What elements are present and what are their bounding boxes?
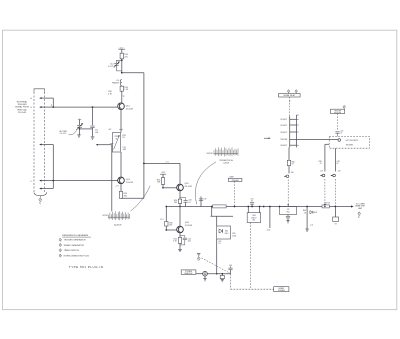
plug pin D arrow — [39, 180, 54, 182]
svg-text:5K: 5K — [115, 138, 117, 140]
dashed link from ground ref — [202, 258, 231, 274]
svg-text:C25: C25 — [340, 130, 343, 132]
svg-text:50V/CM: 50V/CM — [206, 153, 213, 155]
svg-text:TRIGGER GENERATOR: TRIGGER GENERATOR — [64, 239, 87, 242]
svg-text:4.5-25: 4.5-25 — [108, 66, 113, 68]
legend item 3 — [59, 249, 79, 252]
svg-text:+7.5: +7.5 — [165, 161, 168, 163]
plug pin E arrow — [39, 187, 53, 189]
label R10 — [108, 91, 113, 95]
svg-text:93: 93 — [335, 223, 337, 225]
capacitor C34 — [180, 198, 191, 207]
svg-text:-0.35: -0.35 — [266, 229, 270, 231]
label Q44 — [185, 222, 192, 227]
svg-text:SEL: SEL — [252, 220, 255, 222]
arrow to sweep generator — [351, 205, 354, 207]
delay line label box — [279, 94, 301, 98]
termination box T47 — [279, 206, 297, 223]
wire — [121, 59, 123, 73]
dashed wire sweep horizontal — [231, 288, 274, 290]
capacitor C47 above rail — [250, 199, 254, 208]
stub below rail — [333, 207, 339, 226]
svg-text:C4 3-12: C4 3-12 — [60, 133, 66, 135]
annotation line x112 — [96, 144, 114, 212]
supply +125V — [160, 172, 166, 177]
svg-text:93: 93 — [292, 164, 294, 166]
wire pin C down — [52, 145, 54, 189]
legend item 1 — [59, 238, 86, 241]
wire Q44 base — [160, 219, 177, 230]
resistor R46 to ground — [220, 273, 224, 282]
svg-text:151-0148: 151-0148 — [126, 182, 133, 184]
svg-text:SWEEP GENERATOR: SWEEP GENERATOR — [64, 244, 85, 247]
svg-text:L33 SECT: L33 SECT — [280, 132, 287, 134]
svg-text:TRIGGER: TRIGGER — [346, 145, 354, 147]
sweep generator box — [274, 287, 289, 292]
label Q14 — [126, 106, 133, 111]
svg-text:J28: J28 — [338, 171, 341, 173]
wire trigger tap — [296, 139, 338, 141]
svg-text:EXT TRIG INPUT: EXT TRIG INPUT — [346, 140, 359, 142]
label HF TRIM — [59, 131, 76, 136]
svg-text:27: 27 — [340, 133, 342, 135]
svg-text:.1μS/CM: .1μS/CM — [223, 163, 230, 165]
resistor R24 emitter — [119, 184, 127, 198]
wire C28 column — [335, 148, 339, 171]
wire R28 column — [319, 144, 325, 171]
wire TP line — [196, 273, 231, 275]
legend item 2 — [59, 243, 84, 246]
svg-text:151-0148: 151-0148 — [185, 225, 192, 227]
connector pin in box — [338, 139, 341, 142]
connector J29 — [320, 171, 325, 177]
svg-text:1: 1 — [60, 239, 61, 241]
svg-text:TD45: TD45 — [252, 215, 256, 217]
wire Q24 base rail — [53, 180, 117, 182]
node — [263, 206, 265, 208]
reference diamond 2 — [358, 212, 361, 218]
wire to output column — [122, 72, 144, 74]
svg-text:.01: .01 — [218, 243, 220, 245]
capacitor C11 to ground — [90, 106, 98, 139]
connector J30 — [284, 172, 294, 178]
svg-text:L16: L16 — [116, 80, 119, 82]
svg-text:3: 3 — [60, 250, 61, 252]
transistor Q44 — [177, 226, 184, 233]
waveform sketch trigger — [206, 147, 238, 164]
svg-text:TRIGGER: TRIGGER — [278, 290, 286, 292]
wire Q34 base — [162, 184, 177, 188]
reference diamond 2 top — [287, 90, 289, 94]
voltage readings box — [181, 270, 196, 275]
svg-text:TRIGGER PULSE: TRIGGER PULSE — [219, 160, 234, 162]
dashed wire pickoff — [337, 114, 339, 131]
pin letter D — [30, 181, 32, 183]
svg-text:330: 330 — [124, 195, 127, 197]
capacitor C14 variable — [108, 60, 122, 71]
trigger coupling dashed box — [329, 136, 369, 148]
plug pin C arrow — [39, 143, 53, 145]
label Q24 — [115, 179, 133, 188]
svg-text:2: 2 — [60, 245, 61, 247]
svg-text:151-0148: 151-0148 — [126, 109, 133, 111]
callout arrow from waveform 1 — [131, 186, 151, 211]
node Q1 collector feed — [121, 72, 123, 74]
svg-text:VERTICAL: VERTICAL — [17, 108, 28, 111]
svg-text:L31 SECT: L31 SECT — [280, 119, 287, 121]
wire output column — [143, 73, 145, 199]
node sweep rail left — [179, 206, 181, 208]
capacitor C25 — [335, 130, 343, 136]
trigger label box — [228, 176, 242, 182]
svg-text:TP: TP — [123, 96, 125, 98]
callout arrow from waveform 2 — [195, 162, 216, 204]
svg-text:4: 4 — [60, 255, 61, 257]
wire base rail to Q14 — [53, 106, 117, 108]
svg-text:INTERCONNECTING PLUG: INTERCONNECTING PLUG — [64, 255, 90, 257]
svg-text:B45: B45 — [225, 230, 228, 232]
svg-text:-12.2: -12.2 — [160, 219, 164, 221]
svg-text:NE-2: NE-2 — [225, 233, 229, 235]
wire to Q34 collector — [143, 161, 180, 164]
svg-text:+7.6: +7.6 — [115, 186, 118, 188]
wire Q34 collector — [179, 163, 181, 184]
svg-text:EXTERNAL: EXTERNAL — [17, 101, 28, 104]
svg-text:47: 47 — [320, 163, 322, 165]
label C15 — [122, 147, 126, 151]
svg-text:-0.6: -0.6 — [310, 224, 313, 226]
reference diamond 1 — [343, 105, 345, 108]
resistor R33 — [157, 178, 165, 185]
test point drop — [266, 206, 270, 232]
thermal compensation box RT16 — [113, 133, 121, 153]
svg-text:2: 2 — [359, 213, 360, 215]
resistor R44 emitter — [173, 233, 182, 250]
svg-text:TIMING SWITCH: TIMING SWITCH — [64, 250, 80, 252]
reference diamond 3 top — [295, 90, 297, 94]
resistor R48 diode D48 to ground — [303, 206, 317, 232]
wire Q44 collector — [179, 207, 181, 227]
capacitor C37 stub — [199, 197, 207, 207]
svg-text:+: + — [79, 118, 80, 120]
wire Q14 emitter — [108, 110, 123, 133]
delay line ladder L30 — [290, 115, 299, 147]
dashed wire label to rail — [234, 181, 236, 207]
svg-text:T47: T47 — [287, 209, 290, 211]
svg-text:D48: D48 — [314, 212, 317, 214]
wire into box — [325, 143, 329, 145]
svg-text:4: 4 — [40, 199, 41, 201]
svg-text:SIGNAL FROM: SIGNAL FROM — [15, 106, 29, 109]
wire horizontal — [211, 215, 234, 217]
ground reference diamond 4 — [197, 254, 200, 261]
svg-text:.005: .005 — [122, 149, 126, 151]
svg-text:330: 330 — [174, 202, 177, 204]
resistor R14 — [120, 53, 128, 59]
svg-text:B: B — [51, 105, 52, 107]
svg-text:2: 2 — [288, 91, 289, 93]
supply +12.2V — [118, 47, 125, 53]
svg-text:220: 220 — [124, 56, 127, 58]
trigger pickoff label box — [330, 109, 344, 114]
dashed wire from TD box — [250, 223, 252, 290]
svg-text:L34 SECT: L34 SECT — [280, 145, 287, 147]
svg-text:L32 SECT: L32 SECT — [280, 125, 287, 127]
resistor R34 emitter — [174, 191, 182, 207]
svg-text:TRIGGER: TRIGGER — [231, 180, 239, 182]
dashed wire to sweep — [230, 274, 232, 290]
svg-text:C28: C28 — [337, 161, 340, 163]
svg-text:TYPE 561 PLUG-IN: TYPE 561 PLUG-IN — [69, 265, 104, 269]
dashed wire from delay label — [289, 97, 290, 116]
dashed wire J28 through rail — [335, 179, 337, 207]
title TYPE 561 PLUG-IN — [69, 265, 104, 269]
capacitor C44 — [180, 236, 191, 245]
trigger box labels — [346, 140, 359, 147]
wire pin A to node — [52, 98, 54, 107]
svg-text:R28: R28 — [319, 161, 322, 163]
svg-text:82: 82 — [337, 163, 339, 165]
vertical signal input arrow — [264, 137, 271, 139]
svg-text:SWEEP: SWEEP — [279, 288, 285, 290]
ground Q44 emitter — [178, 249, 182, 251]
wire emitter to output column — [121, 197, 144, 199]
svg-text:PLUG-IN: PLUG-IN — [18, 112, 27, 114]
svg-text:J29: J29 — [320, 171, 323, 173]
svg-text:C47: C47 — [250, 199, 253, 201]
connector J28 — [330, 171, 340, 177]
plug pin A arrow — [39, 97, 53, 99]
wire neon to TP line — [216, 239, 218, 275]
svg-text:3: 3 — [296, 91, 297, 93]
dashed wire J29 to rail — [324, 179, 326, 207]
svg-text:RT16: RT16 — [115, 136, 119, 138]
wire stub — [211, 206, 213, 217]
test point jack — [203, 271, 208, 276]
ground at plug shell — [39, 196, 42, 205]
trimmer capacitor C4 HF TRIM — [76, 118, 92, 137]
transistor Q14 — [118, 103, 125, 110]
wire to Q1 — [122, 91, 125, 103]
legend title — [62, 234, 91, 237]
interconnecting plug P11 dashed outline — [34, 89, 47, 196]
svg-text:J30: J30 — [291, 172, 294, 174]
label R15 — [122, 135, 125, 139]
resistor R43 base — [165, 207, 174, 231]
tunnel diode box TD45 — [247, 206, 261, 223]
svg-text:1: 1 — [344, 107, 345, 109]
resistor R16 — [120, 86, 129, 91]
svg-text:4: 4 — [198, 258, 199, 260]
svg-text:REFERENCE DIAGRAMS: REFERENCE DIAGRAMS — [62, 234, 88, 237]
label Q34 — [185, 183, 192, 188]
neon lamp B45 box — [217, 216, 237, 239]
wire rail left segment — [165, 206, 180, 208]
delay network on rail — [213, 205, 227, 208]
resistor R49 on rail — [322, 203, 331, 208]
svg-text:151-0148: 151-0148 — [185, 186, 192, 188]
ground at TP — [203, 276, 206, 281]
svg-text:10μS/CM: 10μS/CM — [114, 225, 122, 227]
wire main sweep trigger rail — [180, 206, 352, 208]
wire — [120, 152, 122, 177]
svg-text:1N3717: 1N3717 — [251, 217, 256, 219]
transistor Q24 — [118, 177, 125, 184]
pin letter B — [30, 105, 52, 109]
svg-text:.001: .001 — [187, 241, 191, 243]
legend item 4 — [59, 254, 89, 257]
label C45 — [218, 241, 221, 245]
resistor R30 — [287, 147, 294, 173]
transistor Q34 — [177, 184, 184, 191]
svg-text:TRIGGER: TRIGGER — [334, 111, 342, 113]
svg-text:.01: .01 — [188, 202, 191, 204]
waveform sketch test point B — [102, 211, 129, 227]
plug pin B arrow — [39, 106, 54, 108]
capacitor C46 — [228, 265, 232, 274]
delay line tap labels — [280, 119, 287, 147]
dashed wire to rail — [287, 180, 289, 207]
svg-text:.001: .001 — [95, 132, 99, 134]
external trigger signal label — [15, 101, 29, 114]
inductor L16 peaking — [112, 80, 122, 86]
label to lower beam — [355, 203, 365, 209]
svg-text:2V/CM: 2V/CM — [102, 215, 108, 217]
svg-text:+8.2: +8.2 — [108, 129, 111, 131]
pin letter A — [30, 97, 32, 100]
svg-text:C46: C46 — [229, 265, 232, 267]
svg-text:C37: C37 — [204, 199, 207, 201]
